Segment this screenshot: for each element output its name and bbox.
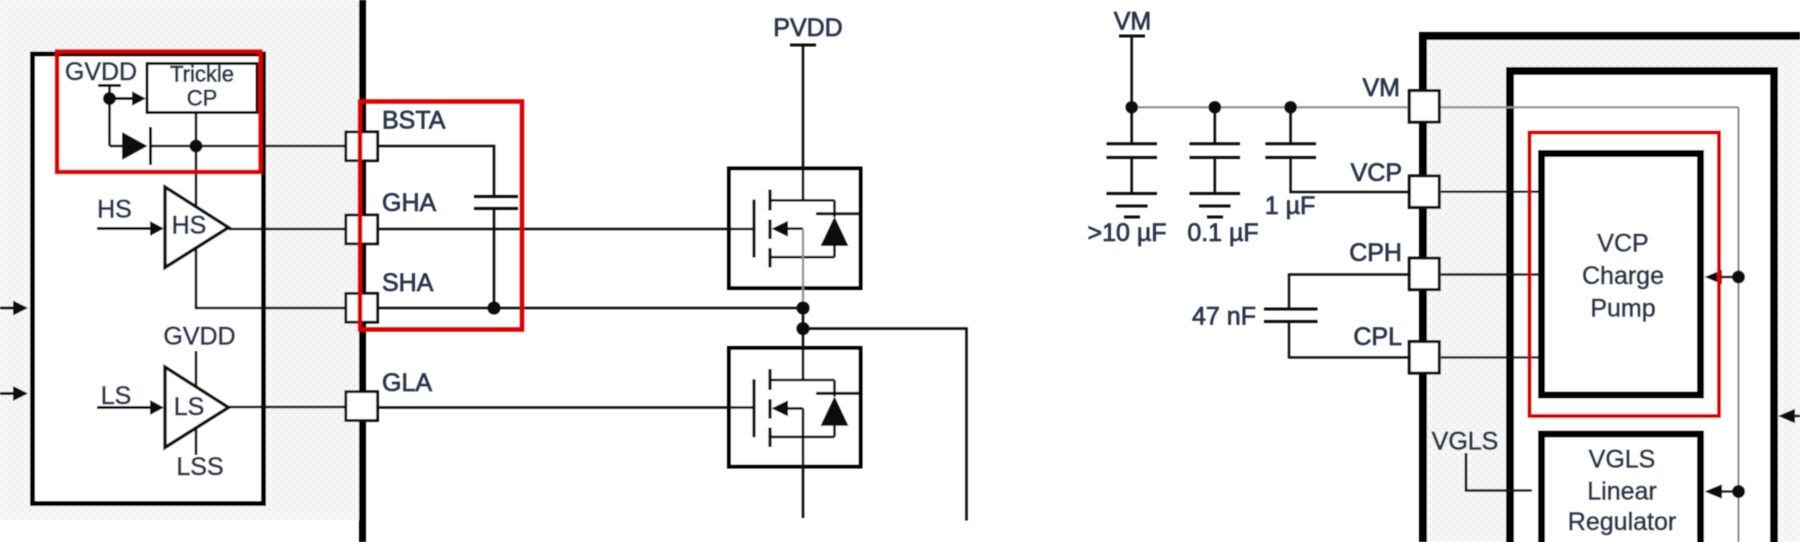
diode D1 [122,132,148,160]
svg-text:CP: CP [187,86,218,111]
wire VM internal vertical gray [1738,107,1740,542]
svg-text:1 µF: 1 µF [1265,192,1316,220]
VCP charge pump box [1542,154,1701,396]
wire switch node gray [802,229,804,308]
node GVDD junction dot [103,92,116,105]
svg-text:Linear: Linear [1587,478,1657,506]
wire SHA to switch node [379,307,803,310]
wire switch node out right [803,329,967,521]
svg-text:CPL: CPL [1353,323,1402,351]
pin GHA [346,215,378,244]
wire C3 to VCP pin [1291,158,1409,193]
svg-text:>10 µF: >10 µF [1087,219,1166,247]
diode D1 cathode bar [149,127,152,165]
svg-text:SHA: SHA [382,269,434,297]
wire between switch dots [802,308,805,329]
svg-text:GHA: GHA [382,189,437,217]
wire GLA to low FET gate [379,406,753,409]
wire VCP pin to charge pump [1441,190,1538,192]
wire bootstrap cap to SHA [493,209,496,309]
arrow into charge pump [1705,270,1723,284]
wire Q2 gate lead [727,406,753,409]
transistor Q2 body diode [821,396,849,426]
transistor Q1 body arrow [772,221,789,237]
red highlight box bootstrap pins [360,102,522,330]
wire HS input [97,227,151,230]
wire GVDD down to HS buffer [195,146,198,206]
svg-text:LS: LS [101,382,132,410]
arrow LS input [150,400,164,415]
wire C4 to CPL pin [1289,322,1409,358]
PVDD supply bar [790,44,816,47]
wire Trickle CP output [195,114,198,146]
wire LS source to LSS [195,427,198,456]
node VM dot 2 [1209,101,1221,113]
transistor Q1 body diode top lead [833,200,836,217]
op-amp HS buffer [165,187,229,268]
wire BSTA to bootstrap cap [379,146,494,197]
transistor Q2 body arrow [772,400,789,416]
capacitor C2 0.1uF [1214,107,1217,143]
pin CPH [1409,258,1439,290]
wire GHA to high FET gate [379,228,753,231]
svg-text:GVDD: GVDD [163,323,235,351]
svg-text:VM: VM [1114,8,1152,36]
transistor Q1 high-side box [729,169,861,289]
svg-text:VCP: VCP [1351,159,1402,187]
svg-text:PVDD: PVDD [773,14,842,42]
transistor Q2 low-side box [729,348,861,467]
left schematic shaded background [0,0,359,520]
ground C1 [1107,192,1158,195]
wire VM down [1130,36,1133,107]
VGLS linear regulator box [1542,434,1701,542]
transistor Q2 body diode bottom lead [833,426,836,437]
wire LS output to GLA pin [229,406,347,409]
pin GLA [346,392,378,421]
transistor Q1 gate bar [752,200,755,258]
chip boundary edge [1419,32,1427,542]
svg-text:GVDD: GVDD [65,58,137,86]
wire HS source to SHA [196,247,346,309]
svg-text:Trickle: Trickle [170,62,234,87]
GVDD supply bar [98,84,121,87]
transistor Q1 body diode [821,217,849,247]
svg-text:HS: HS [172,212,207,240]
node switch dot 1 [797,302,810,315]
capacitor C3 1uF [1289,107,1292,143]
red highlight box VCP charge pump [1530,133,1720,417]
wire VGLS label to block [1466,453,1532,491]
wire right edge into block [1792,415,1800,418]
svg-text:47 nF: 47 nF [1192,303,1256,331]
node VM to charge pump dot [1732,271,1745,284]
wire GVDD vertical [108,86,111,147]
wire LS input [97,406,151,409]
wire GVDD to Trickle CP [110,97,134,100]
wire diode to BSTA pin [151,145,347,148]
transistor Q2 body diode top lead [833,380,836,397]
capacitor C4 47nF [1264,308,1318,311]
arrow HS input [150,221,164,236]
Trickle CP box [147,64,257,113]
op-amp LS buffer [165,367,229,448]
wire GVDD to LS buffer [195,351,198,389]
wire HS output to GHA pin [229,228,347,231]
svg-text:GLA: GLA [382,369,432,397]
wire VM rail gray [1132,106,1408,108]
pin CPL [1409,342,1439,374]
svg-text:Regulator: Regulator [1568,508,1676,536]
transistor Q1 body lead [786,227,803,230]
arrow input 1 [13,301,28,316]
node VM dot 3 [1284,101,1296,113]
capacitor C1 >10uF [1130,107,1133,143]
svg-text:0.1 µF: 0.1 µF [1187,219,1258,247]
arrow input 2 [13,386,28,401]
transistor Q1 source line [770,256,835,259]
wire input arrow 2 [0,392,14,395]
chip left boundary line [359,0,366,542]
transistor Q2 body lead [786,407,803,410]
svg-text:Pump: Pump [1590,295,1655,323]
arrow into VGLS regulator [1705,484,1723,498]
pin VM [1409,91,1439,123]
svg-text:VGLS: VGLS [1432,428,1499,456]
capacitor bootstrap plate2 [474,207,518,210]
node VM to VGLS dot [1732,485,1745,498]
chip interior shaded background [1427,40,1800,542]
transistor Q2 drain stub [770,379,835,382]
svg-text:BSTA: BSTA [382,107,446,135]
ground C2 [1190,192,1241,195]
wire VM to VGLS regulator [1720,490,1739,493]
transistor Q1 channel segments [768,190,771,211]
node VM dot 1 [1126,101,1138,113]
node trickle output dot [190,140,203,153]
svg-text:Charge: Charge [1582,262,1664,290]
pin BSTA [346,132,378,161]
node SHA cap junction dot [488,302,501,315]
arrow into Trickle CP [132,91,146,106]
pin VCP [1409,176,1439,208]
svg-text:LS: LS [174,393,205,421]
capacitor bootstrap plate1 [474,195,518,198]
svg-text:VM: VM [1363,74,1401,102]
svg-text:CPH: CPH [1349,239,1402,267]
transistor Q1 drain stub [770,199,835,202]
wire GVDD to diode anode [110,145,123,148]
wire CPH pin to charge pump [1441,273,1538,275]
svg-text:VCP: VCP [1597,230,1648,258]
transistor Q1 body diode bottom lead [833,246,836,257]
wire Q2 source down [802,408,805,518]
arrow right edge into block [1778,409,1795,423]
VM supply bar [1119,35,1145,38]
wire PVDD to drain [802,45,805,200]
inner block box [1510,71,1774,542]
node switch dot 2 [797,322,810,335]
wire switch to Q2 drain [802,329,805,380]
gate driver block box [33,54,264,504]
transistor Q2 body diode cathode bar [816,392,859,395]
transistor Q2 source line [770,436,835,439]
svg-text:LSS: LSS [176,453,223,481]
transistor Q1 body diode cathode bar [816,212,859,215]
transistor Q2 gate bar [752,379,755,437]
wire input arrow 1 [0,307,14,310]
wire VM to charge pump [1720,276,1739,279]
wire Q1 gate lead [727,228,753,231]
wire CPH pin to C4 [1289,275,1409,310]
transistor Q2 channel segments [768,369,771,390]
red highlight box trickle charge pump [57,52,261,173]
pin SHA [346,293,378,322]
wire CPL pin to charge pump [1441,356,1538,358]
svg-text:HS: HS [97,196,132,224]
svg-text:VGLS: VGLS [1589,446,1656,474]
